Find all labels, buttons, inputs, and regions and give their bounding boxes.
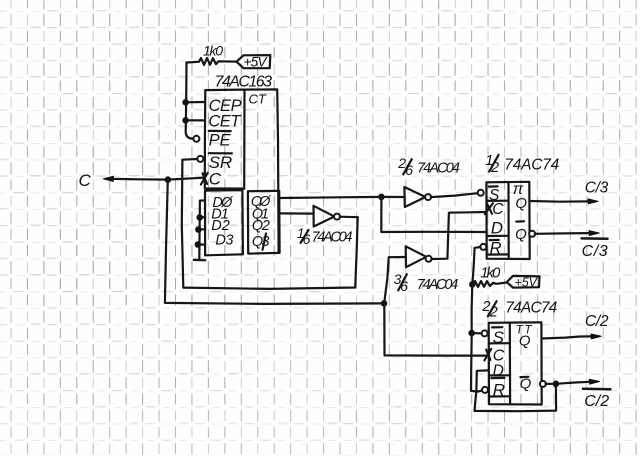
svg-text:74AC74: 74AC74 [505,299,557,316]
wire C input with left arrowhead [103,176,204,181]
svg-text:1k0: 1k0 [203,42,223,58]
wire clock down left side [165,180,384,304]
wire U2C output to FF1 C pin [431,212,485,259]
pin C clock chevron of U3A [485,201,504,218]
svg-text:Q2: Q2 [252,218,270,234]
svg-text:R: R [493,380,505,399]
svg-text:6: 6 [405,162,413,178]
svg-text:2: 2 [489,305,498,321]
inverter U2B 2/6 74AC04 [404,187,431,207]
pin Qbar of U3B [520,376,532,393]
svg-text:D: D [491,219,503,238]
svg-text:C: C [492,201,504,218]
svg-text:+5V: +5V [244,55,269,70]
pin C clock chevron [201,170,222,189]
junction dot clock bottom node [381,300,388,307]
svg-text:6: 6 [400,278,408,294]
svg-text:C: C [79,171,92,190]
flip-flop U3B 2/2 74AC74 box [489,322,542,404]
wire SR feedback loop [182,159,358,289]
wire +5V node down to FF2 S pin [472,284,482,333]
bubble at PE pin [193,136,199,142]
wire U3B Q output to C/2 [542,334,602,339]
wire U2B output to FF1 S pin [431,193,478,197]
supply wire to CEP/CET/PE [186,63,194,139]
bubble at SR pin [197,156,203,162]
svg-text:C/2: C/2 [585,313,609,330]
wire U3A Q output to C/3 [530,199,599,204]
wire Q0 to U2B input [279,197,404,198]
D inputs tie bar [194,200,206,260]
pin SR (active low) [209,153,233,172]
svg-text:6: 6 [303,231,311,247]
resistor R2 1k0 [472,264,506,287]
wire U3A R pin to +5V node [472,247,480,284]
svg-text:+5V: +5V [515,275,539,289]
svg-text:S: S [493,328,505,347]
wire CET stub [186,119,206,121]
pin PE (active low) [209,131,232,150]
wire U2A output [340,216,358,219]
junction dot clock node [165,176,172,183]
node label C/3 inverted [582,238,608,259]
pin Qbar of U3A [515,221,527,243]
junction dot CEP [182,99,189,106]
wire U3B Qbar output to C/2bar [546,379,600,384]
bubble at U3B S pin [482,330,488,336]
bubble at U3A Qbar [529,231,535,237]
bubble at U3A R pin [480,244,486,250]
svg-text:74AC04: 74AC04 [312,230,353,246]
svg-text:C: C [209,170,222,189]
bubble at U3B R pin [482,387,488,393]
svg-text:CT: CT [249,92,267,107]
svg-text:1k0: 1k0 [480,264,501,281]
bubble at U3B Qbar [540,381,546,387]
flip-flop U3A 1/2 74AC74 box [486,182,529,259]
wire down to FF2 R pin [471,333,482,391]
junction dot Q0 branch [378,194,385,201]
pin R (active low) of U3A [490,239,502,257]
junction dot D2 tie [195,226,202,233]
svg-text:CET: CET [208,112,242,130]
svg-text:PE: PE [209,132,232,150]
svg-text:R: R [490,239,502,257]
Q output box of U1 [248,191,280,254]
power flag +5V (lower) [507,275,540,289]
svg-text:74AC04: 74AC04 [417,161,460,177]
svg-text:Q3: Q3 [252,234,270,250]
svg-text:Q: Q [515,195,527,212]
junction dot U3B Qbar feedback [553,381,560,388]
inverter U2C 3/6 74AC04 [406,246,432,267]
junction dot FF2 S node [468,330,475,337]
pin S (active low) of U3A [489,186,500,204]
svg-text:74AC74: 74AC74 [504,156,559,173]
pin C clock chevron of U3B [484,348,504,365]
junction dot D3 tie [195,241,202,248]
resistor R1 1k0 [187,42,237,65]
wire clock to inverter U2C input [384,257,405,303]
svg-text:C/3: C/3 [582,243,608,260]
junction dot D1 tie [196,214,203,221]
power flag +5V (top) [237,55,271,70]
wire Q0 branch to FF1 D pin [381,197,486,232]
node label C/2 inverted [583,389,610,410]
svg-text:C/3: C/3 [585,180,609,197]
pin R (active low) of U3B [491,378,505,399]
svg-text:74AC04: 74AC04 [417,277,459,293]
D input box of U1 [205,190,243,255]
wire U3B Qbar feedback to D and R [475,370,557,411]
svg-text:D: D [493,362,504,379]
wire U3A Qbar output to C/3bar [535,231,599,236]
svg-text:C/2: C/2 [584,393,609,410]
wire CEP stub [186,101,206,104]
inverter U2A 1/6 74AC04 [314,206,341,227]
wire clock to FF2 C pin [384,304,488,356]
wire Q1 to U2A input [280,212,314,214]
pin S (active low) of U3B [492,327,505,347]
svg-text:Q: Q [515,226,527,243]
svg-text:Q: Q [519,332,531,349]
IC U1 74AC163 control box [205,89,279,253]
svg-text:Q: Q [520,376,532,393]
svg-text:D3: D3 [215,232,233,248]
bubble at U3A S pin [478,190,484,196]
svg-text:2: 2 [490,160,499,176]
pin Q3 (slashed) [252,234,270,251]
junction dot CET [182,117,189,124]
junction dot R2 node [469,281,476,288]
svg-text:74AC163: 74AC163 [215,74,273,91]
